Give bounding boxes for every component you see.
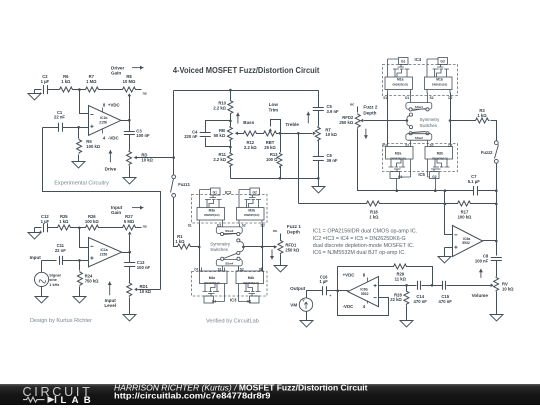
wire C8 to RV (496, 261, 498, 277)
svg-text:IC6 = NJM5532M dual BJT op-amp: IC6 = NJM5532M dual BJT op-amp IC. (313, 250, 406, 256)
resistor R6 (59, 87, 74, 92)
resistor R28 (406, 286, 408, 291)
capacitor C4 (200, 133, 211, 137)
svg-text:100 nF: 100 nF (137, 265, 151, 270)
svg-text:dual discrete depletion-mode M: dual discrete depletion-mode MOSFET IC. (313, 243, 414, 249)
svg-text:1 µF: 1 µF (319, 279, 328, 284)
wire IC2 right rail (262, 224, 264, 272)
switch symmetry SPDT upper (409, 113, 412, 116)
svg-text:Trim: Trim (268, 108, 278, 113)
svg-text:1 kΩ: 1 kΩ (61, 79, 71, 84)
wire R18 row (299, 203, 366, 205)
svg-text:Treble: Treble (285, 122, 299, 127)
svg-text:5532: 5532 (361, 292, 369, 296)
CircuitLab logo glyph (23, 397, 45, 402)
svg-text:22 kΩ: 22 kΩ (390, 297, 402, 302)
svg-text:Fuzz 2: Fuzz 2 (363, 105, 377, 110)
svg-text:IC2 =IC3 = IC4 = IC5 = DN2625D: IC2 =IC3 = IC4 = IC5 = DN2625DK6-G (313, 236, 406, 242)
potentiometer RT treble (318, 111, 320, 127)
transistor M1a (385, 58, 413, 94)
svg-text:250 kΩ: 250 kΩ (339, 120, 353, 125)
label Bass (237, 113, 239, 124)
capacitor C13 (129, 253, 131, 263)
svg-text:G1: G1 (398, 175, 403, 179)
potentiometer R8 driver gain (122, 87, 137, 92)
svg-text:M1a: M1a (397, 78, 404, 82)
wire (35, 89, 42, 91)
op-amp IC6a (453, 226, 483, 257)
svg-text:2.2 kΩ: 2.2 kΩ (213, 157, 226, 162)
node C (IC1a inverting input) (78, 227, 81, 230)
potentiometer RD drive (129, 135, 131, 151)
node R17 left (444, 203, 447, 206)
wire R27 wiper to output node (129, 235, 131, 253)
switch lever SSw4 (224, 254, 237, 259)
node R13 top (279, 132, 282, 135)
ground (274, 264, 287, 273)
resistor R25 (57, 225, 72, 230)
svg-text:39 nF: 39 nF (327, 158, 338, 163)
node IC6b output (336, 290, 339, 293)
svg-text:-VDC: -VDC (108, 136, 120, 141)
node B (IC1b noninverting input) (77, 126, 80, 129)
switch SSw4 (216, 259, 242, 266)
svg-text:G1: G1 (401, 60, 406, 64)
wire Fuzz1 to R1 (174, 198, 177, 247)
IC5 dashed outline (383, 144, 458, 172)
svg-text:DN2625(1/2): DN2625(1/2) (432, 83, 447, 87)
wire C1 to loop (43, 127, 59, 129)
svg-text:Driver: Driver (111, 65, 124, 70)
wire RV to ground (496, 292, 498, 313)
svg-text:IC4: IC4 (415, 57, 422, 62)
transistor M3a (197, 188, 225, 224)
node RD wiper junction (172, 156, 175, 159)
resistor R17 (457, 201, 472, 206)
capacitor C16 (323, 286, 327, 295)
svg-text:5 MΩ: 5 MΩ (124, 219, 135, 224)
wire RD1 to ground (129, 298, 131, 313)
wire R28 to ground (406, 306, 408, 320)
svg-text:100 nF: 100 nF (475, 259, 489, 264)
svg-text:1 kΩ: 1 kΩ (59, 219, 69, 224)
capacitor C6 (318, 141, 320, 157)
svg-text:M3a: M3a (209, 208, 216, 212)
svg-text:Symmetry: Symmetry (420, 117, 441, 122)
svg-text:+VDC: +VDC (343, 273, 356, 278)
svg-text:Verified by CircuitLab: Verified by CircuitLab (206, 319, 259, 325)
svg-text:2.2 kΩ: 2.2 kΩ (213, 105, 226, 110)
svg-text:22 nF: 22 nF (54, 115, 65, 120)
wire (35, 227, 42, 229)
wire RD1 wiper to loop (138, 289, 161, 291)
node D (IC1a noninverting input) (78, 259, 81, 262)
wire IC6a plus to ground (445, 247, 453, 249)
svg-text:DN2625(1/2): DN2625(1/2) (204, 213, 219, 217)
svg-text:2156: 2156 (100, 252, 108, 256)
svg-text:Input: Input (111, 205, 123, 210)
wire R17 to rail (471, 203, 497, 205)
svg-text:5.1 μF: 5.1 μF (468, 179, 481, 184)
resistor R13 (280, 134, 282, 153)
transistor M2b (425, 143, 453, 179)
svg-text:100 kΩ: 100 kΩ (85, 219, 99, 224)
ground (490, 313, 503, 322)
IC3 dashed outline (192, 272, 268, 297)
wire tone top rail (174, 90, 319, 92)
svg-text:nc: nc (273, 229, 277, 233)
wire R12 to RBT (258, 133, 263, 135)
wire (48, 89, 59, 91)
feedback loop bottom (338, 267, 389, 316)
ground (306, 312, 308, 320)
svg-text:M1b: M1b (436, 78, 443, 82)
svg-text:G2: G2 (252, 190, 257, 194)
ground (79, 287, 81, 296)
svg-text:1 kΩ: 1 kΩ (369, 214, 379, 219)
svg-text:Gain: Gain (111, 210, 121, 215)
transistor M1b (425, 58, 453, 94)
node RB bottom (229, 146, 232, 149)
svg-text:Low: Low (269, 102, 279, 107)
resistor R1 (177, 244, 192, 249)
svg-text:SSw3: SSw3 (225, 229, 234, 233)
svg-text:470 nF: 470 nF (439, 299, 453, 304)
svg-text:DN2625(1/2): DN2625(1/2) (204, 281, 219, 285)
ground (28, 90, 41, 101)
IC4 dashed outline (383, 65, 458, 96)
svg-text:11 kΩ: 11 kΩ (395, 277, 407, 282)
resistor R18 (366, 201, 381, 206)
capacitor C12 (44, 223, 48, 232)
svg-text:Fuzz1: Fuzz1 (178, 182, 190, 187)
svg-text:nc: nc (350, 102, 354, 106)
wire IC1b output (121, 120, 130, 122)
pin 8 +VDC (102, 108, 104, 113)
svg-text:+: + (329, 294, 331, 298)
svg-text:D1: D1 (405, 96, 409, 100)
svg-text:100 kΩ: 100 kΩ (458, 214, 472, 219)
switch SSw1 (410, 93, 412, 103)
svg-text:D1: D1 (194, 267, 198, 271)
ground (400, 320, 413, 328)
svg-text:Switches: Switches (210, 247, 228, 252)
svg-text:Gain: Gain (111, 71, 121, 76)
node IC1a output (128, 251, 131, 254)
svg-text:+: + (40, 230, 42, 234)
node C7 rail (495, 189, 498, 192)
svg-text:S2: S2 (430, 96, 434, 100)
IC2 dashed outline (192, 195, 268, 224)
transistor M4b (236, 268, 264, 304)
svg-text:nc: nc (143, 224, 147, 228)
svg-text:22 nF: 22 nF (55, 248, 66, 253)
wire input to C11 (42, 260, 57, 262)
node R29 drop (431, 284, 434, 287)
transistor M3b (237, 188, 265, 224)
resistor R24 (79, 261, 81, 271)
resistor R12 (243, 131, 258, 136)
wire IC1a output (122, 252, 130, 254)
svg-text:Switches: Switches (420, 123, 438, 128)
svg-text:G2: G2 (432, 175, 437, 179)
svg-text:Input: Input (30, 255, 42, 260)
ground (123, 177, 136, 185)
wire C11 to plus input (63, 260, 89, 262)
pin 4 -VDC (102, 129, 104, 134)
svg-text:10 MΩ: 10 MΩ (123, 79, 136, 84)
label Input Level (109, 282, 111, 296)
capacitor C2 (44, 85, 48, 94)
svg-text:1 µF: 1 µF (41, 219, 50, 224)
node rail R17 (495, 203, 498, 206)
svg-text:DN2625(1/2): DN2625(1/2) (432, 157, 447, 161)
node C4 top (229, 120, 232, 123)
svg-text:M2a: M2a (395, 152, 402, 156)
svg-text:IC6a: IC6a (463, 237, 470, 241)
svg-text:Experimental Circuitry: Experimental Circuitry (54, 180, 109, 186)
wire IC5 G2 to output rail (435, 179, 437, 191)
wire IC4 D2 to IC5 D2 right rail (450, 93, 452, 144)
svg-text:10 kΩ: 10 kΩ (141, 157, 153, 162)
svg-text:470 nF: 470 nF (414, 299, 428, 304)
svg-text:Depth: Depth (363, 110, 376, 115)
svg-text:50 kΩ: 50 kΩ (214, 133, 226, 138)
svg-text:IC1a: IC1a (100, 248, 107, 252)
svg-text:100 nF: 100 nF (136, 133, 150, 138)
svg-text:VM: VM (290, 302, 297, 307)
wire R8 wiper to output node (129, 96, 131, 121)
signal source V1 (41, 261, 43, 273)
svg-text:Input: Input (105, 298, 117, 303)
ground (312, 179, 325, 194)
pin 8 +VDC IC6b (367, 278, 369, 282)
wire treble node to RT wiper (299, 133, 313, 135)
svg-text:IC2: IC2 (225, 190, 232, 195)
wire plus input (63, 127, 89, 129)
pin 4 -VDC IC6b (367, 301, 369, 304)
op-amp IC6b (348, 277, 379, 307)
voltmeter VM (299, 298, 312, 311)
transistor M2a (386, 143, 414, 179)
capacitor C1 (59, 123, 63, 132)
svg-text:Drive: Drive (105, 167, 117, 172)
wire (100, 89, 122, 91)
wire loop C1 to RD1 wiper (43, 128, 161, 290)
svg-text:DN2625(1/2): DN2625(1/2) (390, 157, 405, 161)
label Drive (109, 150, 111, 162)
svg-text:Fuzz2: Fuzz2 (481, 150, 493, 155)
svg-text:Bass: Bass (243, 120, 254, 125)
feedback loop R29 (338, 266, 393, 268)
potentiometer RV volume (494, 277, 499, 292)
svg-text:250 kΩ: 250 kΩ (285, 248, 299, 253)
svg-text:DN2625(1/2): DN2625(1/2) (393, 83, 408, 87)
svg-text:M3b: M3b (248, 208, 255, 212)
node ground tap (317, 177, 320, 180)
svg-text:M4b: M4b (248, 276, 255, 280)
svg-text:S2: S2 (242, 223, 246, 227)
wire IC6a output to rail (483, 240, 497, 242)
wire (48, 227, 57, 229)
svg-text:IC3: IC3 (230, 298, 237, 303)
switch SSw3 (222, 224, 224, 227)
potentiometer RD1 input level (129, 267, 131, 283)
wire C14 to C15 (422, 285, 443, 287)
label Volume (480, 269, 482, 278)
svg-text:IC6b: IC6b (360, 287, 367, 291)
svg-text:100 kΩ: 100 kΩ (86, 144, 100, 149)
switch SSw2 (409, 132, 412, 135)
wire (72, 227, 85, 229)
svg-text:IC5: IC5 (418, 172, 425, 177)
wire tone output drop (298, 134, 300, 204)
svg-text:1 kHz: 1 kHz (49, 283, 59, 287)
svg-text:100 Ω: 100 Ω (266, 157, 278, 162)
svg-text:5532: 5532 (462, 241, 470, 245)
svg-text:http://circuitlab.com/c7e84778: http://circuitlab.com/c7e84778dr8r9 (114, 391, 271, 401)
op-amp IC1a (89, 238, 122, 267)
trimmer RBT low trim (263, 131, 278, 136)
node RFD1 tap (261, 246, 264, 249)
wire node A to minus input (80, 90, 89, 114)
svg-text:1 µF: 1 µF (41, 79, 50, 84)
wire IC5 G1 to output rail (396, 179, 398, 191)
nc label R8 (137, 89, 142, 91)
svg-text:Symmetry: Symmetry (210, 241, 231, 246)
capacitor C11 (60, 256, 63, 265)
wire tone bottom rail (231, 161, 319, 179)
svg-text:Depth: Depth (287, 230, 300, 235)
svg-text:Output: Output (290, 286, 306, 291)
wire (100, 227, 122, 229)
resistor R11 (230, 141, 232, 153)
capacitor C4 bracket (206, 121, 231, 133)
capacitor C5 (318, 91, 320, 108)
svg-text:IC1 = OPA2156IDR dual CMOS op-: IC1 = OPA2156IDR dual CMOS op-amp IC. (313, 229, 417, 235)
svg-text:25 kΩ: 25 kΩ (264, 145, 276, 150)
wire feedback node drop (445, 191, 453, 235)
svg-text:G1: G1 (212, 299, 217, 303)
capacitor C15 (443, 281, 446, 290)
svg-text:SSw2: SSw2 (415, 136, 424, 140)
svg-text:Volume: Volume (472, 293, 489, 298)
switch Fuzz2 (494, 141, 498, 145)
svg-text:2.2 kΩ: 2.2 kΩ (244, 145, 257, 150)
svg-text:S1: S1 (188, 223, 192, 227)
wire RFD1 to ground (280, 255, 282, 264)
node A (IC1b inverting input) (78, 88, 81, 91)
wire IC4 S1 to IC5 D1 left rail (387, 93, 389, 144)
wire rail down (496, 191, 498, 256)
wire plus input row (379, 285, 417, 287)
op-amp IC1b (89, 106, 121, 136)
switch symmetry SPDT lower (237, 239, 240, 242)
node IC1b output (128, 119, 131, 122)
svg-text:Fuzz 1: Fuzz 1 (287, 224, 301, 229)
svg-text:750 kΩ: 750 kΩ (85, 279, 99, 284)
wire Fuzz2 to output rail (496, 164, 498, 191)
resistor R3 (451, 120, 475, 122)
ground (41, 287, 43, 296)
svg-text:3.9 nF: 3.9 nF (327, 109, 340, 114)
svg-text:+: + (40, 91, 42, 95)
svg-text:1 kΩ: 1 kΩ (175, 239, 185, 244)
wire volume wiper row (447, 285, 491, 287)
svg-text:M2b: M2b (437, 152, 444, 156)
wire R10 to RB (230, 115, 232, 127)
node R3 tap (449, 119, 452, 122)
wire R13 to bottom rail (280, 167, 282, 179)
ground (438, 255, 451, 264)
wire tone input drop to Fuzz1 (173, 91, 175, 175)
resistor R5 (78, 128, 80, 139)
svg-text:M4a: M4a (209, 276, 216, 280)
potentiometer RB bass (227, 126, 232, 141)
resistor R10 (230, 91, 232, 100)
node R10 top (229, 89, 232, 92)
svg-text:IC1b: IC1b (100, 116, 107, 120)
svg-text:S1: S1 (383, 96, 387, 100)
nc label R27 (137, 227, 142, 229)
svg-text:SSw1: SSw1 (415, 105, 424, 109)
potentiometer R27 input gain (122, 225, 137, 230)
ground (123, 313, 136, 322)
potentiometer RFD1 fuzz 1 depth (280, 234, 282, 240)
wire C7 to rail (478, 190, 497, 192)
node IC6a output (495, 240, 498, 243)
node symmetry common upper (406, 119, 409, 122)
svg-text:10 kΩ: 10 kΩ (325, 132, 337, 137)
ground (28, 228, 41, 240)
wire R3 to Fuzz2 (491, 121, 497, 141)
wire (74, 89, 85, 91)
wire IC2 left rail (199, 224, 201, 272)
transistor M4a (200, 268, 228, 304)
svg-text:LAB: LAB (61, 395, 92, 405)
svg-text:2156: 2156 (99, 121, 107, 125)
wire RD bottom to ground (129, 166, 131, 177)
capacitor C7 (474, 186, 478, 196)
wire R18 to node (381, 203, 457, 205)
wire node C to minus input (80, 228, 89, 248)
svg-text:DN2625(1/2): DN2625(1/2) (244, 213, 259, 217)
node R28 top (405, 284, 408, 287)
wire RBT wiper tie (271, 120, 281, 134)
svg-text:220 nF: 220 nF (184, 134, 198, 139)
svg-text:4-Voiced MOSFET Fuzz/Distortio: 4-Voiced MOSFET Fuzz/Distortion Circuit (173, 66, 320, 75)
svg-text:sine: sine (49, 278, 57, 282)
svg-text:SSw4: SSw4 (225, 262, 234, 266)
svg-text:G1: G1 (213, 190, 218, 194)
svg-text:1 MΩ: 1 MΩ (86, 79, 97, 84)
svg-text:Signal: Signal (49, 274, 60, 278)
capacitor C14 (418, 281, 421, 290)
node R1 junction (198, 246, 201, 249)
capacitor C8 (491, 258, 502, 261)
svg-text:G2: G2 (247, 299, 252, 303)
svg-text:+VDC: +VDC (108, 102, 121, 107)
wire RBT to treble node (278, 133, 299, 135)
svg-text:Design by Kurtus Richter: Design by Kurtus Richter (30, 318, 92, 324)
wire R11 to bottom rail (230, 167, 232, 179)
switch Fuzz1 (172, 175, 176, 179)
wire symmetry common to RFD2 (364, 120, 407, 122)
svg-text:-VDC: -VDC (343, 304, 355, 309)
node tone output (297, 132, 300, 135)
svg-text:DN2625(1/2): DN2625(1/2) (243, 281, 258, 285)
resistor R26 (85, 225, 100, 230)
